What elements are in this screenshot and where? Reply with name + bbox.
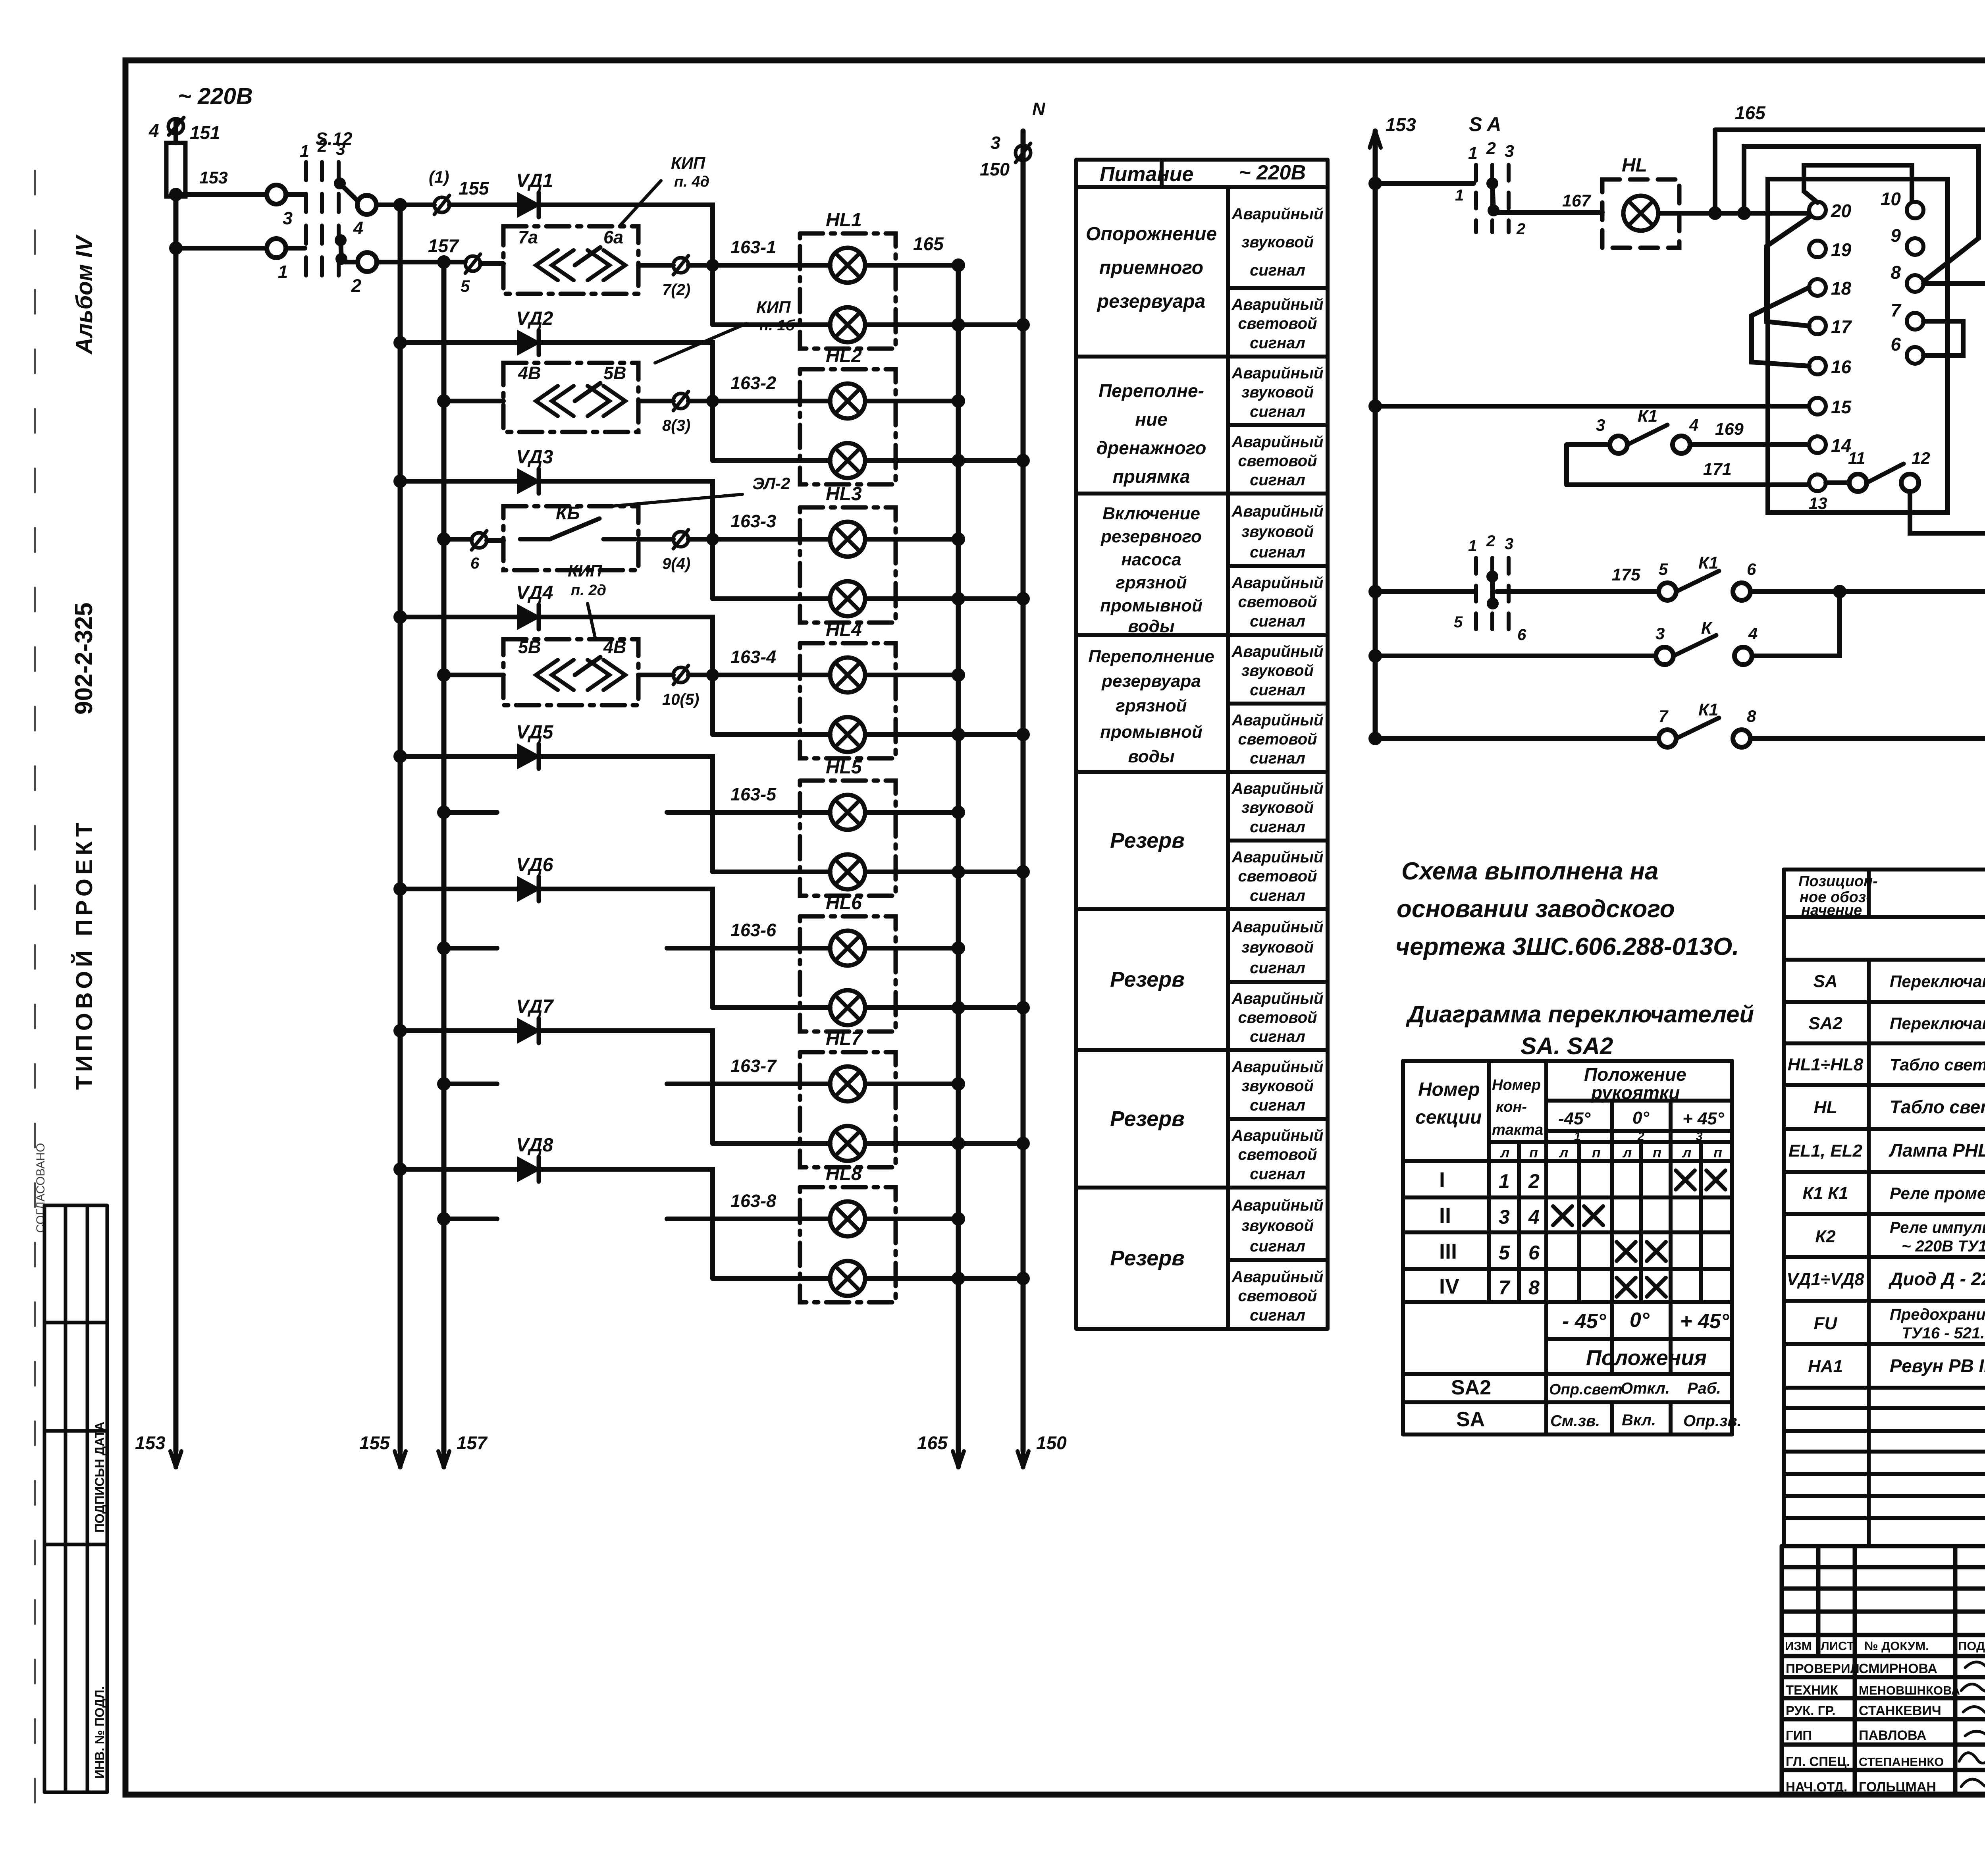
relay K2 terminal box — [1768, 179, 1948, 513]
svg-text:световой: световой — [1238, 868, 1317, 885]
contact K 3-4 — [1656, 647, 1673, 665]
diode VD7 — [518, 1020, 539, 1042]
wire bus 157 — [441, 262, 447, 1451]
wire diode VD4 output with elbow — [539, 617, 713, 675]
wire lamp HL5.1 leads — [800, 810, 958, 815]
svg-text:N: N — [1032, 99, 1046, 119]
terminal 20 — [1809, 202, 1826, 218]
svg-text:HL7: HL7 — [826, 1028, 863, 1049]
switch S12 contact terminal 3 — [267, 185, 286, 204]
node bus155 diode row 1 — [396, 201, 405, 209]
switch S12 contact terminal 2 — [358, 253, 377, 272]
callout label group 4 — [588, 603, 595, 639]
callout label group 1 — [619, 181, 661, 226]
svg-text:Предохранитель ППТ-10, плавка: Предохранитель ППТ-10, плавкая вставка В… — [1890, 1306, 1985, 1323]
svg-text:5: 5 — [461, 277, 470, 295]
wire bus 153 right section — [1373, 131, 1378, 738]
lamp HL5.1 — [830, 795, 865, 830]
svg-text:Табло световое ТСМ ТУ16-53: Табло световое ТСМ ТУ16-535. 424-70 — [1890, 1097, 1985, 1117]
svg-text:сигнал: сигнал — [1250, 1097, 1305, 1114]
svg-text:I: I — [1439, 1168, 1445, 1192]
wire from 220V — [173, 119, 178, 140]
svg-text:7: 7 — [1891, 300, 1902, 320]
wire diode VD1 output with elbow — [539, 205, 713, 265]
svg-text:сигнал: сигнал — [1250, 613, 1305, 630]
svg-text:HL1÷HL8: HL1÷HL8 — [1788, 1055, 1864, 1074]
svg-text:звуковой: звуковой — [1241, 1077, 1314, 1095]
svg-text:КБ: КБ — [556, 503, 580, 523]
wire diode VD3 output with elbow — [539, 481, 713, 539]
svg-text:151: 151 — [190, 122, 220, 143]
svg-text:VД2: VД2 — [516, 308, 553, 329]
svg-text:SA2: SA2 — [1451, 1376, 1491, 1399]
svg-text:~ 220В: ~ 220В — [1239, 161, 1306, 184]
contact K2 11-12 — [1826, 480, 1849, 485]
lamp HL1.1 — [830, 248, 865, 283]
svg-text:сигнал: сигнал — [1250, 403, 1305, 420]
svg-text:+ 45°: + 45° — [1682, 1109, 1724, 1128]
svg-text:Вкл.: Вкл. — [1622, 1411, 1656, 1429]
wire lamp HL8.1 leads — [800, 1217, 958, 1221]
svg-text:световой: световой — [1238, 1146, 1317, 1163]
svg-text:(1): (1) — [429, 168, 449, 186]
svg-text:звуковой: звуковой — [1241, 523, 1314, 540]
connection mark 6 — [472, 533, 487, 548]
svg-text:3: 3 — [336, 140, 345, 159]
node bus153 SA2 — [1371, 587, 1380, 596]
S12 moving contact row1 — [336, 180, 343, 187]
terminal 13 — [1809, 474, 1826, 491]
wire HL out — [1658, 211, 1809, 216]
wire lamp HL4.2 leads — [713, 732, 1023, 737]
svg-text:4: 4 — [1748, 624, 1758, 643]
X marks row I plus45 — [1676, 1170, 1695, 1190]
svg-text:л: л — [1682, 1144, 1691, 1161]
svg-text:6: 6 — [1517, 626, 1526, 644]
signature СТЕПАНЕНКО — [1959, 1751, 1985, 1763]
lamp HL6.1 — [830, 931, 865, 966]
svg-text:Позицион-: Позицион- — [1798, 873, 1878, 890]
svg-text:155: 155 — [459, 178, 490, 199]
node 165 bus G5 — [954, 808, 963, 817]
terminal 16 — [1809, 358, 1826, 374]
terminal 8 — [1907, 275, 1923, 292]
sheet edge mark left — [34, 171, 36, 1810]
wire 175 — [1497, 589, 1659, 594]
svg-text:ИЗМ: ИЗМ — [1785, 1639, 1812, 1653]
node N bus G3 — [1019, 594, 1027, 603]
wire elbow to lamp2 G8 — [710, 1219, 715, 1278]
node bus157 G4 — [439, 671, 448, 679]
svg-text:ГОЛЬЦМАН: ГОЛЬЦМАН — [1859, 1780, 1936, 1795]
svg-text:8: 8 — [1891, 262, 1901, 283]
wire to diode VD1 — [516, 202, 518, 207]
svg-text:7: 7 — [1659, 707, 1669, 725]
svg-text:III: III — [1439, 1240, 1457, 1263]
contact K1 5-6 — [1659, 583, 1676, 600]
lamp HL5.2 — [830, 854, 865, 889]
wire dangling 163-8 segment — [667, 1217, 800, 1221]
svg-text:Включение: Включение — [1102, 504, 1200, 523]
svg-text:1: 1 — [1499, 1170, 1510, 1192]
svg-text:Диод Д - 226Б: Диод Д - 226Б — [1888, 1269, 1985, 1289]
svg-text:ЛИСТ: ЛИСТ — [1821, 1639, 1854, 1653]
svg-text:2: 2 — [1486, 532, 1495, 550]
node bus153 row3K4 — [1371, 652, 1380, 660]
svg-text:приемного: приемного — [1099, 257, 1203, 278]
wire elbow to lamp2 G6 — [710, 948, 715, 1008]
node bus155 diode row 4 — [396, 613, 405, 621]
svg-text:Откл.: Откл. — [1621, 1380, 1670, 1397]
diode VD4 — [518, 606, 539, 628]
svg-text:сигнал: сигнал — [1250, 1165, 1305, 1183]
left stamp column box — [44, 1205, 107, 1792]
svg-text:Опорожнение: Опорожнение — [1086, 224, 1217, 245]
terminal 7 — [1907, 313, 1923, 330]
lamp box HL6 — [800, 916, 896, 1032]
svg-text:S A: S A — [1469, 113, 1501, 135]
svg-text:резервного: резервного — [1100, 527, 1202, 546]
svg-text:5В: 5В — [603, 363, 626, 383]
svg-text:II: II — [1439, 1204, 1451, 1228]
svg-text:163-8: 163-8 — [730, 1191, 776, 1211]
svg-text:Переключатель УП5312-А45 ТУ1: Переключатель УП5312-А45 ТУ16-524. 074-7… — [1890, 972, 1985, 991]
svg-text:сигнал: сигнал — [1250, 471, 1305, 489]
svg-text:световой: световой — [1238, 593, 1317, 611]
svg-text:К2: К2 — [1815, 1227, 1836, 1246]
svg-text:0°: 0° — [1630, 1309, 1650, 1332]
node junction 163-2 — [709, 397, 717, 405]
lamp box HL3 — [800, 507, 896, 623]
wire terminal 8 out — [1923, 281, 1985, 286]
connection mark 8(3) — [673, 393, 688, 409]
svg-text:2: 2 — [1516, 220, 1525, 238]
node N bus G2 — [1019, 456, 1027, 465]
svg-text:157: 157 — [428, 235, 459, 256]
node cross G2 — [954, 456, 963, 465]
svg-text:промывной: промывной — [1100, 722, 1203, 742]
svg-text:Переключатель УП5312-С45 ТУ: Переключатель УП5312-С45 ТУ16-524. 074-7… — [1890, 1014, 1985, 1033]
svg-text:4: 4 — [148, 120, 159, 141]
diode VD3 — [518, 470, 539, 492]
svg-text:Резерв: Резерв — [1110, 1107, 1185, 1131]
lamp box HL5 — [800, 781, 896, 896]
svg-text:IV: IV — [1439, 1274, 1459, 1298]
svg-text:3: 3 — [991, 133, 1000, 153]
diode VD2 — [518, 332, 539, 354]
svg-text:6: 6 — [1528, 1242, 1540, 1264]
svg-text:дренажного: дренажного — [1097, 438, 1206, 458]
contact box KIP group 4 — [503, 639, 638, 705]
svg-text:Реле промежуточное РП-25 ~2: Реле промежуточное РП-25 ~220В; ТУ16-523… — [1890, 1184, 1985, 1203]
svg-text:п: п — [1529, 1144, 1538, 1161]
svg-text:такта: такта — [1492, 1122, 1543, 1138]
svg-text:НАЧ.ОТД.: НАЧ.ОТД. — [1786, 1780, 1847, 1794]
node cross G7 — [954, 1139, 963, 1148]
signature СМИРНОВА — [1965, 1662, 1985, 1670]
svg-text:резервуара: резервуара — [1097, 291, 1205, 312]
lamp HL7.1 — [830, 1066, 865, 1101]
lamp box HL8 — [800, 1187, 896, 1302]
svg-text:ИНВ. № ПОДЛ.: ИНВ. № ПОДЛ. — [93, 1686, 107, 1779]
svg-text:6а: 6а — [603, 227, 623, 247]
wire bracket rows169-171 — [1564, 445, 1569, 485]
svg-text:Номер: Номер — [1418, 1079, 1480, 1100]
lamp HL6.2 — [830, 990, 865, 1025]
wire elbow to lamp2 G5 — [710, 812, 715, 872]
svg-text:VД6: VД6 — [516, 854, 553, 875]
jumper 18-16 — [1752, 287, 1809, 366]
svg-text:звуковой: звуковой — [1241, 384, 1314, 401]
svg-text:SA. SA2: SA. SA2 — [1521, 1033, 1613, 1059]
table parts list grid — [1784, 870, 1985, 1546]
wire reserve stub G8 — [444, 1217, 497, 1221]
switch S12 contact terminal 4 — [357, 195, 376, 214]
svg-text:3: 3 — [1696, 1130, 1703, 1143]
svg-text:HL6: HL6 — [826, 893, 862, 914]
terminal 10 — [1907, 202, 1923, 218]
svg-text:Схема выполнена на: Схема выполнена на — [1401, 858, 1659, 885]
node bus157 reserve stub G8 — [439, 1215, 448, 1223]
svg-text:163-2: 163-2 — [730, 373, 776, 393]
svg-text:сигнал: сигнал — [1250, 334, 1305, 352]
svg-text:световой: световой — [1238, 1009, 1317, 1026]
svg-text:SA2: SA2 — [1808, 1014, 1842, 1033]
wire lamp HL2.1 leads — [800, 399, 958, 403]
arrow bus 150 bottom — [1021, 1451, 1025, 1467]
svg-text:20: 20 — [1831, 201, 1852, 221]
node N bus G5 — [1019, 868, 1027, 876]
svg-text:8: 8 — [1747, 707, 1756, 725]
terminal 18 — [1809, 279, 1826, 296]
lamp HL3.2 — [830, 581, 865, 616]
svg-text:Аварийный: Аварийный — [1231, 205, 1324, 223]
svg-text:ние: ние — [1135, 409, 1167, 430]
table switch diagram grid — [1403, 1061, 1732, 1434]
svg-text:167: 167 — [1562, 191, 1592, 210]
wire reserve stub G5 — [444, 810, 497, 815]
svg-text:+ 45°: + 45° — [1680, 1310, 1730, 1333]
svg-text:2: 2 — [351, 276, 361, 296]
X marks row II minus45 — [1553, 1206, 1572, 1225]
svg-text:VД1: VД1 — [516, 170, 553, 191]
svg-text:1: 1 — [278, 262, 288, 282]
wire bus 150 N — [1021, 131, 1026, 1451]
terminal 17 — [1809, 318, 1826, 334]
svg-text:резервуара: резервуара — [1101, 671, 1201, 691]
node junction 163-3 — [709, 535, 717, 543]
node bus153 row179 — [1371, 734, 1380, 743]
contact K1 3-4 row169 — [1567, 442, 1610, 447]
svg-text:2: 2 — [1486, 139, 1496, 158]
svg-text:0°: 0° — [1632, 1108, 1649, 1128]
svg-text:Аварийный: Аварийный — [1231, 1127, 1324, 1144]
svg-text:Переполнение: Переполнение — [1088, 647, 1214, 666]
signature СТАНКЕВИЧ — [1963, 1706, 1985, 1714]
diode VD5 — [518, 745, 539, 767]
svg-text:Реле импульсной сигнализации: Реле импульсной сигнализации РИС-Э3М — [1890, 1219, 1985, 1236]
svg-text:сигнал: сигнал — [1250, 750, 1305, 767]
node junction 163-1 — [709, 261, 717, 269]
S12 moving contact row2 — [337, 237, 344, 244]
node N bus G4 — [1019, 730, 1027, 739]
X marks row IV zero — [1617, 1278, 1636, 1297]
callout label group 3 — [611, 494, 742, 506]
svg-text:FU: FU — [1814, 1314, 1838, 1333]
svg-text:8(3): 8(3) — [662, 417, 690, 434]
diode VD8 — [518, 1158, 539, 1180]
svg-text:155: 155 — [359, 1433, 390, 1453]
svg-text:Аварийный: Аварийный — [1231, 574, 1324, 592]
svg-text:~ 220В ТУ16- 523. 311-70: ~ 220В ТУ16- 523. 311-70 — [1902, 1238, 1985, 1255]
contact box KIP group 2 — [503, 363, 638, 432]
svg-text:15: 15 — [1831, 397, 1852, 417]
svg-text:~ 220В: ~ 220В — [178, 83, 253, 109]
contact box KIP group 3 — [503, 506, 638, 570]
wire diode VD2 output with elbow — [539, 343, 713, 401]
svg-text:световой: световой — [1238, 452, 1317, 470]
svg-text:3: 3 — [1499, 1206, 1510, 1228]
signature МЕНОВШНКОВА — [1961, 1682, 1985, 1692]
callout label group 2 — [655, 324, 746, 363]
svg-text:163-1: 163-1 — [730, 237, 776, 257]
svg-text:РУК. ГР.: РУК. ГР. — [1786, 1703, 1836, 1718]
svg-text:сигнал: сигнал — [1250, 544, 1305, 561]
svg-text:171: 171 — [1703, 460, 1732, 479]
arrow bus 153 top — [1370, 131, 1381, 148]
svg-text:чертежа 3ШС.606.288-013О.: чертежа 3ШС.606.288-013О. — [1395, 933, 1739, 960]
wire 153 to SA — [1375, 181, 1474, 186]
node cross G4 — [954, 730, 963, 739]
svg-text:СТЕПАНЕНКО: СТЕПАНЕНКО — [1859, 1755, 1944, 1769]
svg-text:19: 19 — [1831, 239, 1852, 260]
wire row 3K4 — [1375, 654, 1656, 658]
svg-text:5: 5 — [1659, 560, 1668, 578]
svg-text:12: 12 — [1912, 449, 1930, 467]
svg-text:ТУ16 - 521. 037-70: ТУ16 - 521. 037-70 — [1902, 1325, 1985, 1342]
svg-text:VД7: VД7 — [516, 996, 554, 1017]
svg-text:150: 150 — [980, 159, 1010, 179]
wire elbow to row177 — [1752, 592, 1840, 656]
svg-text:К1: К1 — [1698, 553, 1718, 573]
svg-text:Питание: Питание — [1100, 163, 1193, 186]
svg-text:163-6: 163-6 — [730, 920, 777, 940]
connection mark 7(2) — [673, 258, 688, 273]
svg-text:9: 9 — [1891, 225, 1901, 246]
wire to diode VD6 — [400, 887, 518, 891]
svg-text:основании заводского: основании заводского — [1397, 895, 1675, 923]
svg-text:световой: световой — [1238, 315, 1317, 332]
node row177 branch — [1835, 587, 1844, 596]
title block frame — [1782, 1546, 1985, 1795]
svg-text:6: 6 — [1747, 560, 1756, 578]
node 165 bus G1 — [954, 261, 963, 270]
node cross G6 — [954, 1003, 963, 1012]
svg-text:13: 13 — [1809, 494, 1827, 513]
svg-text:Аварийный: Аварийный — [1231, 643, 1324, 660]
wire 153 to SA2 — [1375, 589, 1474, 594]
svg-text:п. 2д: п. 2д — [571, 582, 606, 599]
node bus155 top — [396, 201, 405, 209]
svg-text:сигнал: сигнал — [1250, 681, 1305, 699]
svg-text:КИП: КИП — [671, 154, 705, 172]
svg-text:ПАВЛОВА: ПАВЛОВА — [1859, 1728, 1926, 1743]
svg-text:ПОДПИСЬ: ПОДПИСЬ — [1958, 1639, 1985, 1653]
svg-text:воды: воды — [1128, 747, 1174, 766]
contact K1 7-8 — [1659, 730, 1676, 747]
wire lamp HL5.2 leads — [713, 870, 1023, 874]
wire dangling 163-7 segment — [667, 1082, 800, 1086]
wire to diode VD8 — [400, 1167, 518, 1172]
svg-text:3: 3 — [283, 208, 293, 228]
wire box to 163-4 — [638, 673, 800, 677]
wire 153 row — [176, 192, 267, 197]
svg-text:Аварийный: Аварийный — [1231, 296, 1324, 313]
svg-text:Опр.свет: Опр.свет — [1549, 1381, 1623, 1398]
svg-text:сигнал: сигнал — [1250, 959, 1305, 977]
lamp box HL7 — [800, 1052, 896, 1167]
svg-text:5: 5 — [1454, 613, 1463, 631]
svg-text:902-2-325: 902-2-325 — [70, 602, 98, 715]
node bus157 reserve stub G7 — [439, 1080, 448, 1088]
wire diode VD5 output with elbow — [539, 756, 713, 812]
svg-text:11: 11 — [1848, 449, 1866, 467]
svg-text:Раб.: Раб. — [1687, 1380, 1721, 1397]
terminal 9 — [1907, 238, 1923, 255]
svg-text:Табло световое ТСБ 220В;: Табло световое ТСБ 220В; ТУ16-535. 424-7… — [1890, 1055, 1985, 1074]
svg-text:169: 169 — [1715, 420, 1744, 439]
lamp HL1.2 — [830, 307, 865, 342]
diode VD1 — [518, 194, 539, 216]
svg-text:1: 1 — [1468, 537, 1477, 555]
svg-text:4В: 4В — [603, 637, 626, 657]
signature ПАВЛОВА — [1965, 1731, 1985, 1740]
svg-text:17: 17 — [1831, 316, 1852, 337]
wire to diode VD7 — [400, 1028, 518, 1033]
svg-text:сигнал: сигнал — [1250, 1307, 1305, 1324]
svg-text:К1 К1: К1 К1 — [1802, 1184, 1848, 1203]
svg-text:4: 4 — [1689, 416, 1698, 434]
svg-text:ГИП: ГИП — [1786, 1728, 1812, 1743]
svg-text:9(4): 9(4) — [662, 555, 690, 573]
wire bus 155 — [398, 205, 403, 1451]
lamp box HL4 — [800, 643, 896, 758]
jumper 20-17 — [1767, 216, 1810, 326]
lamp HL2.1 — [830, 384, 865, 418]
svg-text:Альбом IV: Альбом IV — [71, 234, 97, 355]
svg-text:18: 18 — [1831, 278, 1852, 299]
wire to diode VD4 — [400, 615, 518, 619]
svg-text:звуковой: звуковой — [1241, 799, 1314, 816]
svg-text:HL1: HL1 — [826, 210, 862, 231]
node bus157 reserve stub G5 — [439, 808, 448, 817]
svg-text:10(5): 10(5) — [662, 691, 699, 708]
svg-text:кон-: кон- — [1496, 1099, 1527, 1115]
wire row2 — [176, 246, 267, 251]
wire bus157 to G4 box — [444, 673, 503, 677]
node bus157 reserve stub G6 — [439, 944, 448, 952]
wire lamp HL7.1 leads — [800, 1082, 958, 1086]
svg-text:- 45°: - 45° — [1562, 1310, 1607, 1333]
svg-text:VД8: VД8 — [516, 1135, 553, 1156]
svg-text:SA: SA — [1813, 972, 1837, 991]
svg-text:Аварийный: Аварийный — [1231, 364, 1324, 382]
svg-text:См.зв.: См.зв. — [1550, 1412, 1600, 1430]
svg-text:начение: начение — [1801, 902, 1862, 919]
node junction 163-4 — [709, 671, 717, 679]
terminal 6 — [1907, 347, 1923, 364]
wire SA out — [1497, 210, 1602, 215]
